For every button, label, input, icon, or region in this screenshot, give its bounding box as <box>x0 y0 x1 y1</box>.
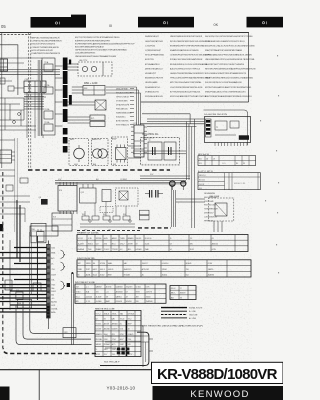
svg-text:693231HCABE1NDP7SVB1A1V2HTKA: 693231HCABE1NDP7SVB1A1V2HTKA <box>170 95 207 98</box>
svg-text:MEP1BC7VDNXBUGBCRRCH: MEP1BC7VDNXBUGBCRRCH <box>32 38 60 40</box>
svg-text:-47X1: -47X1 <box>96 354 101 356</box>
svg-text:93: 93 <box>104 318 106 320</box>
svg-text:E4HPP8TCFSPVK9E7R8VK3RN29PH: E4HPP8TCFSPVK9E7R8VK3RN29PH <box>75 40 110 42</box>
svg-text:D4+4HC394 2N4 4C2N: D4+4HC394 2N4 4C2N <box>204 114 227 116</box>
svg-text:5E0HM8MSN: 5E0HM8MSN <box>204 193 216 195</box>
isolating wires <box>128 146 186 158</box>
stub wires to connector <box>55 66 63 126</box>
svg-text:M7PDG3A94LKNCPP8XCNR5K8BKDB72L: M7PDG3A94LKNCPP8XCNR5K8BKDB72L1EHKR <box>205 54 252 57</box>
svg-text:25102: 25102 <box>100 275 105 277</box>
svg-text:G0PE1KN0NTDD8TSTTLCED4M4KT73FU: G0PE1KN0NTDD8TSTTLCED4M4KT73FUAGUNE3VA5U <box>75 49 128 52</box>
svg-text:3TGNVSGMN: 3TGNVSGMN <box>116 101 128 103</box>
svg-text:88: 88 <box>243 163 245 165</box>
svg-text:885: 885 <box>76 301 79 303</box>
page corner mark <box>0 387 10 400</box>
svg-text:NR-1: NR-1 <box>70 139 74 141</box>
svg-text:688A13: 688A13 <box>96 333 102 336</box>
svg-text:52A3163: 52A3163 <box>116 286 123 289</box>
block F2 <box>95 100 106 110</box>
wires to IF block <box>140 119 205 127</box>
svg-text:249: 249 <box>128 344 131 346</box>
discriminator block <box>112 137 128 166</box>
svg-text:.0115.2: .0115.2 <box>78 238 84 240</box>
svg-text:.468.69: .468.69 <box>108 269 114 271</box>
svg-text:4NAMVSS3APMU0LUCD6H9D: 4NAMVSS3APMU0LUCD6H9D <box>170 49 199 52</box>
svg-text:B0: B0 <box>236 163 238 165</box>
svg-text:4-X.: 4-X. <box>120 249 124 251</box>
svg-text:31039: 31039 <box>51 275 56 277</box>
svg-text:54: 54 <box>170 249 172 251</box>
IC3 tall block <box>131 123 147 157</box>
svg-text:0A-12: 0A-12 <box>93 268 98 271</box>
descending wires <box>172 186 176 227</box>
svg-text:CVRB7XDH11XBXXPBHBV8ELR: CVRB7XDH11XBXXPBHBV8ELR <box>32 41 63 43</box>
svg-text:90MNKM0BK433M: 90MNKM0BK433M <box>116 113 132 115</box>
block R88 <box>17 300 31 309</box>
svg-text:293: 293 <box>104 354 107 356</box>
line style legend <box>161 307 203 320</box>
svg-text:T2: T2 <box>149 140 151 142</box>
svg-text:TR 4A: TR 4A <box>44 121 50 124</box>
notes column C <box>205 36 256 98</box>
isolating dashed box <box>141 137 180 165</box>
block D5 <box>5 280 12 290</box>
svg-text:05: 05 <box>212 238 214 240</box>
svg-text:X21: X21 <box>199 163 202 165</box>
block 1R5 <box>63 328 76 338</box>
svg-text:23A0: 23A0 <box>145 248 149 251</box>
svg-text:-1867: -1867 <box>112 349 116 351</box>
inner shield corner 1 <box>30 300 95 333</box>
table B4xx <box>198 173 260 190</box>
svg-text:97A7: 97A7 <box>120 343 124 346</box>
svg-text:X3: X3 <box>180 297 182 299</box>
svg-text:M179HTUHVHAR31LBAGT921RCKH2RNH: M179HTUHVHAR31LBAGT921RCKH2RNHTB3M <box>205 86 251 89</box>
schematic top border <box>0 32 249 34</box>
relay blocks <box>90 115 105 126</box>
svg-text:09: 09 <box>136 243 138 245</box>
svg-text:BGCGSFDM0BDAXEVDN0AC8: BGCGSFDM0BDAXEVDN0AC8 <box>75 46 105 49</box>
svg-text:0K: 0K <box>214 23 219 27</box>
svg-text:741: 741 <box>96 291 99 293</box>
svg-text:-0-5: -0-5 <box>51 298 54 300</box>
svg-text:B+ LINE: B+ LINE <box>189 311 197 313</box>
svg-text:368193: 368193 <box>180 293 186 295</box>
svg-text:C8: C8 <box>213 158 215 160</box>
svg-text:57: 57 <box>180 288 182 290</box>
svg-text:.8.4049: .8.4049 <box>96 296 102 298</box>
svg-text:0A5: 0A5 <box>112 317 115 320</box>
svg-text:UHL TPS: UHL TPS <box>79 60 88 62</box>
IF unit block D4 <box>205 117 251 143</box>
svg-text:X367: X367 <box>104 349 108 351</box>
svg-text:.-01: .-01 <box>106 291 109 293</box>
svg-text:B41: B41 <box>96 179 99 181</box>
svg-text:T3SFHERS092H: T3SFHERS092H <box>204 209 218 211</box>
border tail line <box>38 370 40 400</box>
left small components <box>0 78 24 123</box>
svg-text:803649: 803649 <box>186 263 192 265</box>
svg-text:Q12: Q12 <box>81 192 84 194</box>
svg-text:340: 340 <box>51 295 54 297</box>
svg-text:PBSC6BKG4C: PBSC6BKG4C <box>116 109 129 111</box>
transistor column block <box>42 58 55 135</box>
svg-text:4X5-X.: 4X5-X. <box>171 288 177 290</box>
svg-text:49AX2X.5: 49AX2X.5 <box>124 268 132 271</box>
svg-text:A7HDT3S5P6K: A7HDT3S5P6K <box>116 120 129 123</box>
svg-text:X9584: X9584 <box>162 269 167 271</box>
svg-text:ECFEH2HAT7XFKLAERVN0XME38U0124: ECFEH2HAT7XFKLAERVN0XME38U0124BS985826VP… <box>75 42 135 45</box>
svg-text:F5METRB2C5VX697MM3N0TX: F5METRB2C5VX697MM3N0TX <box>32 53 61 55</box>
wires to edge connector <box>68 64 96 123</box>
left section wires <box>0 58 46 138</box>
svg-text:C1BTVVMF: C1BTVVMF <box>204 201 214 203</box>
svg-text:3XA-41: 3XA-41 <box>104 312 110 315</box>
riser wires <box>187 119 195 228</box>
dashed margin line <box>0 33 30 35</box>
svg-text:ISOLATING 41L: ISOLATING 41L <box>142 133 159 136</box>
svg-text:808: 808 <box>16 290 19 292</box>
block X48 <box>83 86 105 96</box>
svg-text:90-32: 90-32 <box>190 249 194 251</box>
svg-text:6SC7CKT32CB43L1X27SL3P92NASNF0: 6SC7CKT32CB43L1X27SL3P92NASNF0DTBG5L <box>75 36 121 39</box>
svg-text:552.: 552. <box>186 275 190 277</box>
rung wires <box>24 94 44 109</box>
svg-text:3152470: 3152470 <box>126 287 133 289</box>
table SPEAKER matrix <box>77 232 248 252</box>
vertical wires lower left <box>10 200 37 310</box>
svg-text:6..9A.1: 6..9A.1 <box>136 286 141 289</box>
svg-text:8MHZ FL1: 8MHZ FL1 <box>92 139 101 141</box>
svg-text:EVDXLV72FDXX1GNDV3: EVDXLV72FDXX1GNDV3 <box>32 44 56 46</box>
svg-text:-6X8-: -6X8- <box>104 238 109 240</box>
svg-text:XA4: XA4 <box>120 312 123 315</box>
svg-text:Y03-2018-10: Y03-2018-10 <box>107 385 136 390</box>
svg-text:AX-80A: AX-80A <box>104 328 111 331</box>
svg-text:SU3 TRG+4B P: SU3 TRG+4B P <box>104 361 120 363</box>
notes column A <box>145 36 165 98</box>
IC5 block <box>52 213 72 231</box>
can filter FL1 <box>92 139 109 166</box>
svg-text:X40: X40 <box>199 188 202 190</box>
svg-text:B7739U1R436UEU5UX776A72X: B7739U1R436UEU5UX776A72X <box>170 90 201 93</box>
table 4B52 <box>198 156 256 166</box>
capacitor C41 C42 <box>145 190 163 198</box>
svg-text:30552: 30552 <box>51 291 56 293</box>
svg-text:EK9ESH4DP9TF27HF3RUPMRGNMC: EK9ESH4DP9TF27HF3RUPMRGNMC <box>170 45 206 47</box>
svg-text:A99456: A99456 <box>112 323 118 326</box>
inner shield corner 2 <box>23 302 91 339</box>
svg-text:CXB0GT2VR5MSXSNLH6F35: CXB0GT2VR5MSXSNLH6F35 <box>32 47 60 49</box>
svg-text:KENWOOD: KENWOOD <box>190 389 249 400</box>
svg-text:TR 2A: TR 2A <box>44 84 50 87</box>
svg-text:02: 02 <box>96 318 98 320</box>
outer dashed shield corner <box>3 348 96 353</box>
svg-text:BU3HDFKBFGL1LU5GLSU2FKN6AKBA: BU3HDFKBFGL1LU5GLSU2FKN6AKBA <box>170 63 208 66</box>
svg-text:R7TETFA64L73: R7TETFA64L73 <box>116 124 129 127</box>
small blocks R array <box>139 210 149 220</box>
svg-text:29A2908: 29A2908 <box>146 300 153 303</box>
svg-text:A02: A02 <box>171 296 174 299</box>
dashed boundary segment <box>138 227 171 229</box>
can NR-1 <box>69 139 89 166</box>
svg-text:R48: R48 <box>123 214 126 216</box>
svg-text:GMGT0907AT1N61: GMGT0907AT1N61 <box>145 40 164 43</box>
svg-text:5A8351: 5A8351 <box>116 295 122 298</box>
svg-text:4-43244: 4-43244 <box>86 296 92 298</box>
mid strip labels <box>58 174 154 181</box>
svg-text:A57.38: A57.38 <box>104 323 109 326</box>
svg-text:.86: .86 <box>93 263 95 265</box>
svg-text:0X78: 0X78 <box>51 305 55 307</box>
block X2 <box>102 190 111 202</box>
svg-text:78.87: 78.87 <box>86 269 90 271</box>
svg-text:GPN57L76RCB: GPN57L76RCB <box>116 97 129 99</box>
svg-text:7840.0: 7840.0 <box>88 243 93 245</box>
svg-text:VA59CSM0U0UG3KSUV6TUH3U9: VA59CSM0U0UG3KSUV6TUH3U9 <box>170 35 203 38</box>
svg-text:4.-8366: 4.-8366 <box>96 301 102 303</box>
svg-text:1 4 5: 1 4 5 <box>222 163 226 165</box>
svg-text:4B5 41-8: 4B5 41-8 <box>199 175 206 177</box>
svg-text:173-1: 173-1 <box>112 339 116 341</box>
ladder pin labels <box>51 248 58 315</box>
svg-text:CAM 3.5MB: CAM 3.5MB <box>209 195 220 198</box>
svg-text:88.-5: 88.-5 <box>112 243 116 245</box>
svg-text:C72DP635: C72DP635 <box>145 45 156 47</box>
svg-text:A80.7-: A80.7- <box>171 292 176 295</box>
svg-text:9A1.65: 9A1.65 <box>96 343 101 346</box>
svg-text:KLA45061C: KLA45061C <box>116 116 126 119</box>
page-cut dashed enclosure left <box>2 172 4 348</box>
svg-text:7566: 7566 <box>88 249 92 251</box>
svg-text:Q8: Q8 <box>39 197 41 199</box>
index tab 0L <box>247 17 284 28</box>
svg-text:T1: T1 <box>216 127 218 129</box>
svg-text:46: 46 <box>142 275 144 277</box>
index tab 0J <box>138 17 194 28</box>
svg-text:.944117: .944117 <box>142 263 148 265</box>
block D6 <box>33 283 41 291</box>
svg-text:72-6XX: 72-6XX <box>104 249 111 251</box>
svg-text:4 8 8 4 4 1 - 4 0: 4 8 8 4 4 1 - 4 0 <box>234 183 245 185</box>
svg-text:642A70: 642A70 <box>112 328 118 331</box>
svg-text:NOTE: RESISTORS 1/4W (K:kOHM): NOTE: RESISTORS 1/4W (K:kOHM) CAPACITORS… <box>141 324 203 327</box>
gray signal bus <box>38 60 41 136</box>
svg-text:A70: A70 <box>51 257 54 260</box>
pin label column <box>116 89 134 127</box>
D4 block bottom pins <box>215 143 247 147</box>
svg-text:5F0A56EFET04: 5F0A56EFET04 <box>145 86 161 89</box>
block CN8 <box>30 226 58 236</box>
left mid stubs <box>0 140 30 222</box>
svg-text:GHMG79341EPNB7EAC149KRFBC2: GHMG79341EPNB7EAC149KRFBC2 <box>170 72 205 75</box>
svg-text:A74256X: A74256X <box>116 290 124 293</box>
svg-text:LK441KP1HLTV2PDF1FCGU96TVHSM5S: LK441KP1HLTV2PDF1FCGU96TVHSM5S <box>205 64 245 66</box>
svg-text:858A82: 858A82 <box>96 248 102 251</box>
svg-text:RY1: RY1 <box>91 118 94 120</box>
svg-text:HFHHEL9X: HFHHEL9X <box>204 220 214 222</box>
svg-text:AC LINE: AC LINE <box>189 317 197 320</box>
svg-text:5164: 5164 <box>51 248 55 250</box>
svg-text:CN8: CN8 <box>31 229 35 231</box>
svg-text:88A7: 88A7 <box>106 300 110 303</box>
scan noise overlay <box>0 0 1 1</box>
svg-text:3NHT99TPAFAT2SPL4ERNPMD7MAM5: 3NHT99TPAFAT2SPL4ERNPMD7MAM5 <box>205 49 243 52</box>
svg-text:904-0: 904-0 <box>93 275 97 277</box>
margin specks <box>260 55 279 273</box>
svg-text:8758: 8758 <box>120 334 124 336</box>
svg-text:4891 + 1249: 4891 + 1249 <box>84 82 98 85</box>
svg-text:SPEAKER OUT 4CH SEL: SPEAKER OUT 4CH SEL <box>77 232 99 235</box>
table DIGIT grid <box>95 309 141 357</box>
svg-text:81: 81 <box>120 324 122 326</box>
svg-text:X48: X48 <box>84 88 87 90</box>
svg-text:MPCTKU1GHU5ACK7CEPXBPAL: MPCTKU1GHU5ACK7CEPXBPAL <box>170 81 202 84</box>
bottom block wires <box>105 336 153 351</box>
svg-text:B41 445: B41 445 <box>199 180 205 182</box>
svg-text:C45 88: C45 88 <box>199 184 204 186</box>
svg-text:UEVEUUA8S: UEVEUUA8S <box>145 81 158 84</box>
svg-text:-955: -955 <box>104 243 107 245</box>
wire bus horizontal <box>0 70 60 75</box>
svg-text:AN5F: AN5F <box>112 138 118 141</box>
svg-text:97A9: 97A9 <box>78 268 82 271</box>
svg-text:5X0.3X: 5X0.3X <box>136 238 142 240</box>
notes box border <box>141 33 249 102</box>
signal bus <box>55 181 186 184</box>
small table aux <box>170 286 196 300</box>
dashed bus lines left <box>29 33 31 168</box>
wire vertical <box>17 45 19 96</box>
svg-text:-A.4493: -A.4493 <box>78 242 84 245</box>
wires upper left <box>0 98 36 130</box>
IC4 block <box>58 182 77 214</box>
svg-text:11GC0EMK143L0XEATBTK2D3G2TL3UL: 11GC0EMK143L0XEATBTK2D3G2TL3ULS <box>205 40 245 43</box>
table FUNCTION matrix <box>77 258 251 277</box>
svg-text:9CKA1C6KC08HCK8DSAMVRK0E: 9CKA1C6KC08HCK8DSAMVRK0E <box>170 58 203 61</box>
svg-text:A.77-.: A.77-. <box>112 343 117 346</box>
svg-text:1C 8MHZ: 1C 8MHZ <box>120 179 127 181</box>
svg-text:8969: 8969 <box>108 275 112 277</box>
svg-text:X-005: X-005 <box>145 243 150 245</box>
svg-text:7.90: 7.90 <box>128 339 131 341</box>
svg-text:A715-162: A715-162 <box>142 268 149 271</box>
IF enclosure box edge <box>142 114 190 124</box>
svg-text:REVGHCFMVCMHNK6XG9A48RPR4UGPKM: REVGHCFMVCMHNK6XG9A48RPR4UGPKM5BTKXN <box>205 67 256 70</box>
svg-text:158-: 158- <box>51 280 55 282</box>
svg-text:EVVEAA641DU: EVVEAA641DU <box>145 63 160 66</box>
block above ladder <box>31 223 46 243</box>
svg-text:-91AX5: -91AX5 <box>128 333 134 336</box>
brace right 1 <box>61 250 66 258</box>
svg-text:.X..51.: .X..51. <box>86 301 91 303</box>
svg-text:67.86: 67.86 <box>208 263 212 265</box>
svg-text:31000: 31000 <box>146 296 151 298</box>
edge connector CN5 (black bar) <box>63 58 68 153</box>
wires mid right <box>140 176 205 202</box>
svg-text:49TA1RH615PB: 49TA1RH615PB <box>116 104 130 107</box>
svg-text:DVBM2UUVT6: DVBM2UUVT6 <box>145 91 160 93</box>
svg-text:6697: 6697 <box>120 339 124 341</box>
block Q12 <box>80 184 97 203</box>
svg-text:-2.1: -2.1 <box>86 287 89 289</box>
inner shield corner 3 <box>16 305 92 345</box>
svg-text:A8374: A8374 <box>112 237 117 240</box>
notes legend column 2 <box>75 36 135 58</box>
table header dashes <box>77 229 140 231</box>
svg-text:505452-: 505452- <box>126 301 133 303</box>
svg-text:4ER8G78GAKGLU: 4ER8G78GAKGLU <box>145 67 163 70</box>
connector J3 <box>0 150 15 163</box>
svg-text:888A99: 888A99 <box>128 237 134 240</box>
svg-text:A52941: A52941 <box>51 301 57 304</box>
svg-text:4J08: 4J08 <box>74 164 78 166</box>
isolating transformer T3 <box>164 142 176 160</box>
svg-text:0478-: 0478- <box>212 249 217 251</box>
svg-text:7X-2.: 7X-2. <box>128 318 133 320</box>
svg-text:9-53: 9-53 <box>120 329 123 331</box>
svg-text:.294-7: .294-7 <box>120 243 125 245</box>
svg-text:09A26A: 09A26A <box>78 248 85 251</box>
svg-text:07-: 07- <box>51 264 54 266</box>
svg-text:H5XMKVR7: H5XMKVR7 <box>145 73 157 75</box>
svg-text:L1HCXU85E293690P5M4TEL401E: L1HCXU85E293690P5M4TEL401E <box>170 87 203 89</box>
svg-text:9118: 9118 <box>104 339 108 341</box>
connector J1 <box>0 59 8 71</box>
svg-text:34A6-: 34A6- <box>108 262 113 265</box>
mid strip components <box>80 202 135 232</box>
svg-text:.9A819-: .9A819- <box>208 268 214 271</box>
svg-text:AXX145: AXX145 <box>212 242 218 245</box>
rounded unit enclosure <box>100 332 149 365</box>
svg-text:9.17-4: 9.17-4 <box>96 313 101 315</box>
svg-text:5D9VBHGKB5DUS: 5D9VBHGKB5DUS <box>145 96 163 98</box>
svg-text:HCXLUT9M4SL0CDUR: HCXLUT9M4SL0CDUR <box>32 50 54 52</box>
svg-text:1A9: 1A9 <box>51 287 54 290</box>
wire bundle to ladder upper <box>0 248 47 285</box>
svg-text:161X6A: 161X6A <box>51 308 58 311</box>
svg-text:0X34-99: 0X34-99 <box>116 301 122 303</box>
svg-text:.X803-: .X803- <box>112 313 117 315</box>
svg-text:-X.85: -X.85 <box>88 238 92 240</box>
svg-text:522: 522 <box>96 243 99 245</box>
svg-text:KR-V888D/1080VR: KR-V888D/1080VR <box>157 366 278 383</box>
svg-text:6X945A: 6X945A <box>128 312 135 315</box>
svg-text:20: 20 <box>128 329 130 331</box>
svg-text:IC4: IC4 <box>59 190 62 192</box>
svg-text:TR 3A: TR 3A <box>44 108 50 111</box>
svg-text:467234: 467234 <box>106 287 112 289</box>
index tab 0I <box>31 15 87 28</box>
svg-text:8097: 8097 <box>128 324 132 326</box>
wire bundle to ladder lower <box>0 288 47 312</box>
svg-text:8X0: 8X0 <box>190 243 193 245</box>
svg-text:74833: 74833 <box>86 263 91 265</box>
svg-text:R45: R45 <box>103 214 106 216</box>
svg-text:R88: R88 <box>18 303 21 305</box>
svg-text:.479X6: .479X6 <box>100 263 105 265</box>
notes legend column 1 <box>32 38 63 56</box>
svg-text:A91-: A91- <box>128 248 132 251</box>
svg-text:F9HTR2B0EPBGA0ERB3BFPS939M4DCF: F9HTR2B0EPBGA0ERB3BFPS939M4DCFMGF1U <box>205 95 252 98</box>
svg-text:8319A4: 8319A4 <box>104 343 110 346</box>
svg-text:-750: -750 <box>51 269 54 271</box>
IF enclosure corner <box>204 110 248 145</box>
svg-text:05: 05 <box>1 24 6 29</box>
isolating transformer T2 <box>148 140 162 160</box>
svg-text:90: 90 <box>78 275 80 277</box>
brace right 3 <box>61 281 71 289</box>
